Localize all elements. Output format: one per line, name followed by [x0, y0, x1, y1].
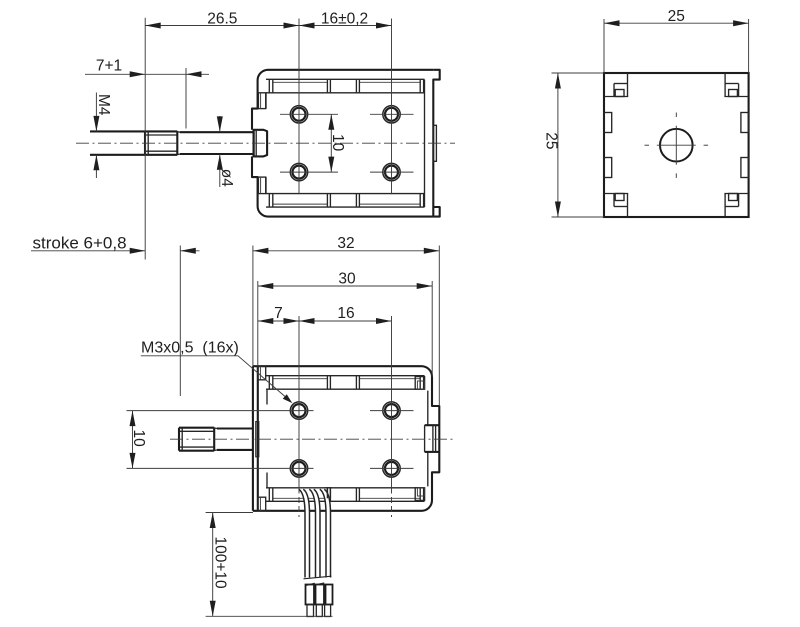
- top view: bottom mounting rail with slots: [266, 206, 425, 208]
- front view: bottom-right corner foot: [415, 488, 424, 501]
- front view: right wall inner line: [427, 391, 429, 426]
- top view: solenoid body outline: [252, 70, 433, 217]
- dimension M4 line: [95, 93, 97, 132]
- dimension 100+10 line: [206, 512, 253, 514]
- front view: mounting hole lower-right: [383, 460, 400, 477]
- end view: crosshair horizontal centerline: [657, 144, 696, 146]
- dimension 26.5 line: [144, 18, 146, 260]
- dimension ø4 line: [219, 116, 221, 132]
- front view: body outline: [253, 366, 439, 511]
- top view: thread end chamfer: [177, 131, 180, 134]
- svg-text:25: 25: [668, 8, 685, 25]
- top view: hole axis vertical line left: [298, 19, 300, 195]
- front view: rail divider over wires: [326, 488, 328, 499]
- svg-text:30: 30: [338, 270, 356, 287]
- front view: mounting hole lower-left: [290, 460, 307, 477]
- end view: corner notch bottom-left: [627, 194, 629, 218]
- svg-text:10: 10: [130, 430, 147, 448]
- top view: mounting hole lower-right: [383, 163, 400, 180]
- dimension stroke 6+0,8 line: [31, 250, 145, 252]
- front view: top-right corner foot: [415, 377, 424, 390]
- front view: mounting hole upper-left: [290, 402, 307, 419]
- top view: hole crosslines horizontal right: [370, 113, 414, 115]
- top view: right wall inner line: [424, 80, 426, 207]
- svg-text:stroke 6+0,8: stroke 6+0,8: [33, 233, 127, 252]
- dimension 16 line: [299, 320, 392, 322]
- top view: horizontal centerline: [76, 142, 455, 144]
- end view: corner notch top-left: [627, 73, 629, 97]
- svg-text:M3x0,5 (16x): M3x0,5 (16x): [141, 339, 239, 356]
- end view: outer square body: [604, 73, 749, 217]
- top view: o4 rod section: [180, 131, 254, 133]
- front view: left mounting plate: [252, 366, 254, 511]
- end view: crosshair vertical centerline: [675, 126, 677, 165]
- svg-text:M4: M4: [95, 94, 112, 116]
- svg-text:25: 25: [542, 132, 559, 149]
- front view: wire bare pins: [307, 605, 314, 617]
- front view: shaft collar flange retracted: [256, 422, 259, 457]
- dimension 7+1 line: [85, 73, 209, 75]
- top view: top mounting rail with slots: [266, 78, 425, 80]
- svg-text:100+10: 100+10: [212, 537, 229, 590]
- end view: side tab left upper: [604, 113, 612, 133]
- svg-text:16±0,2: 16±0,2: [321, 11, 368, 28]
- top view: bottom-left corner foot: [258, 177, 265, 194]
- end view: center plunger circle: [660, 129, 693, 162]
- front view: mounting hole upper-right: [383, 402, 400, 419]
- front view: bottom-left corner foot: [258, 497, 266, 511]
- front view: plunger rear guide block: [425, 424, 440, 426]
- svg-text:32: 32: [337, 235, 354, 252]
- dimension 25 top line: [603, 19, 605, 73]
- top view: left wall inner line lower: [265, 177, 267, 194]
- top view: hole axis vertical line right: [391, 19, 393, 195]
- front view: wire break marks: [304, 576, 332, 579]
- svg-text:16: 16: [337, 305, 354, 322]
- end view: corner notch top-right: [724, 73, 726, 97]
- svg-text:26.5: 26.5: [207, 11, 237, 28]
- front view: thread end chamfer: [214, 427, 217, 430]
- front view: lead wires bundle: [299, 489, 310, 578]
- front view: hole crosslines horizontal right: [370, 410, 414, 412]
- svg-text:ø4: ø4: [218, 169, 235, 187]
- dimension 10 top view line: [330, 114, 332, 172]
- front view: bottom mounting rail with slots: [266, 500, 425, 502]
- top view: left wall inner line upper: [265, 93, 267, 109]
- top view: plunger shaft plain rod: [90, 130, 145, 132]
- dimension 32 line: [252, 246, 254, 367]
- dimension 16±0,2 line: [299, 25, 392, 27]
- front view: hole axis vertical line right: [391, 316, 393, 494]
- top view: top-left corner foot: [258, 93, 265, 109]
- end view: side tab left lower: [604, 158, 612, 178]
- front view: left wall inner line lower: [266, 473, 268, 488]
- top view: mounting hole lower-left: [290, 163, 307, 180]
- front view: o4 rod section: [217, 427, 253, 429]
- top view: right wall and tabs: [433, 70, 439, 217]
- front view: top mounting rail with slots: [266, 375, 425, 377]
- top view: shaft collar flange at body: [254, 130, 268, 157]
- front view: horizontal centerline: [170, 438, 453, 440]
- top view: M4 thread section: [145, 130, 177, 132]
- front view: M4 thread section retracted: [179, 427, 214, 429]
- dimension 30 line: [257, 281, 259, 366]
- front view: top-left corner foot: [258, 366, 266, 380]
- end view: side tab right lower: [741, 158, 749, 178]
- top view: plunger rear sliver on right wall: [433, 125, 436, 161]
- dimension 10 front view line: [127, 410, 314, 412]
- front view: wire end sleeves: [306, 585, 315, 605]
- top view: mounting hole upper-right: [383, 106, 400, 123]
- top view: hole crosslines horizontal left: [280, 113, 338, 115]
- end view: corner notch bottom-right: [724, 194, 726, 218]
- svg-text:10: 10: [329, 134, 346, 152]
- svg-text:7: 7: [274, 305, 283, 322]
- dimension 25 left line: [552, 72, 605, 74]
- top view: mounting hole upper-left: [290, 106, 307, 123]
- svg-text:7+1: 7+1: [96, 58, 122, 75]
- dimension 7 line: [258, 320, 299, 322]
- end view: side tab right upper: [741, 113, 749, 133]
- front view: hole axis dashed continuation below: [298, 497, 300, 517]
- front view: left wall inner line upper: [266, 389, 268, 404]
- front view: hole axis vertical line left: [298, 316, 300, 494]
